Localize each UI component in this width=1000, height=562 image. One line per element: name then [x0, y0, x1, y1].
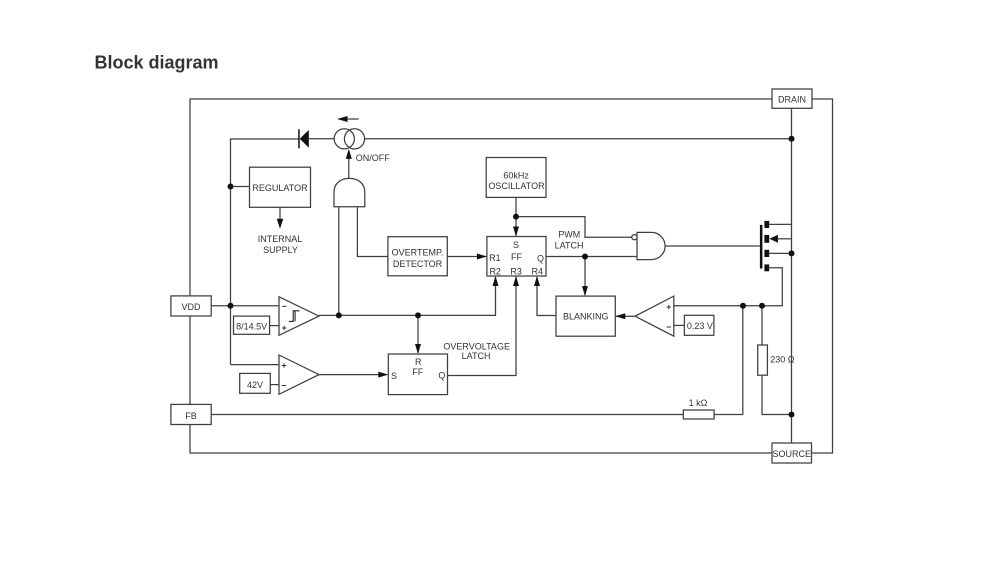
svg-text:OVERTEMP.: OVERTEMP.	[392, 247, 444, 257]
svg-text:BLANKING: BLANKING	[563, 312, 609, 322]
svg-text:8/14.5V: 8/14.5V	[236, 321, 267, 331]
svg-text:OSCILLATOR: OSCILLATOR	[488, 181, 545, 191]
svg-text:PWM: PWM	[558, 229, 580, 239]
svg-text:S: S	[513, 240, 519, 250]
svg-text:ON/OFF: ON/OFF	[356, 153, 390, 163]
svg-text:1 kΩ: 1 kΩ	[689, 398, 708, 408]
svg-text:R3: R3	[510, 266, 522, 276]
svg-text:230 Ω: 230 Ω	[770, 354, 795, 364]
svg-text:FB: FB	[185, 411, 197, 421]
svg-text:INTERNAL: INTERNAL	[258, 234, 303, 244]
svg-text:SOURCE: SOURCE	[772, 449, 811, 459]
svg-text:R1: R1	[489, 253, 501, 263]
svg-text:OVERVOLTAGE: OVERVOLTAGE	[443, 341, 510, 351]
svg-text:Block diagram: Block diagram	[95, 52, 219, 72]
svg-text:Q: Q	[438, 370, 445, 380]
svg-text:Q: Q	[537, 254, 544, 264]
svg-text:0.23 V: 0.23 V	[687, 321, 713, 331]
svg-text:SUPPLY: SUPPLY	[263, 245, 298, 255]
svg-text:R: R	[415, 357, 422, 367]
svg-text:REGULATOR: REGULATOR	[252, 183, 308, 193]
svg-text:FF: FF	[412, 367, 423, 377]
svg-text:R4: R4	[532, 266, 544, 276]
svg-text:DRAIN: DRAIN	[778, 95, 806, 105]
svg-text:FF: FF	[511, 252, 522, 262]
svg-text:VDD: VDD	[181, 302, 201, 312]
svg-text:60kHz: 60kHz	[503, 171, 529, 181]
svg-text:LATCH: LATCH	[555, 240, 584, 250]
svg-text:R2: R2	[489, 266, 501, 276]
svg-text:DETECTOR: DETECTOR	[393, 259, 443, 269]
svg-text:LATCH: LATCH	[462, 351, 491, 361]
svg-text:42V: 42V	[247, 380, 263, 390]
svg-text:S: S	[391, 371, 397, 381]
